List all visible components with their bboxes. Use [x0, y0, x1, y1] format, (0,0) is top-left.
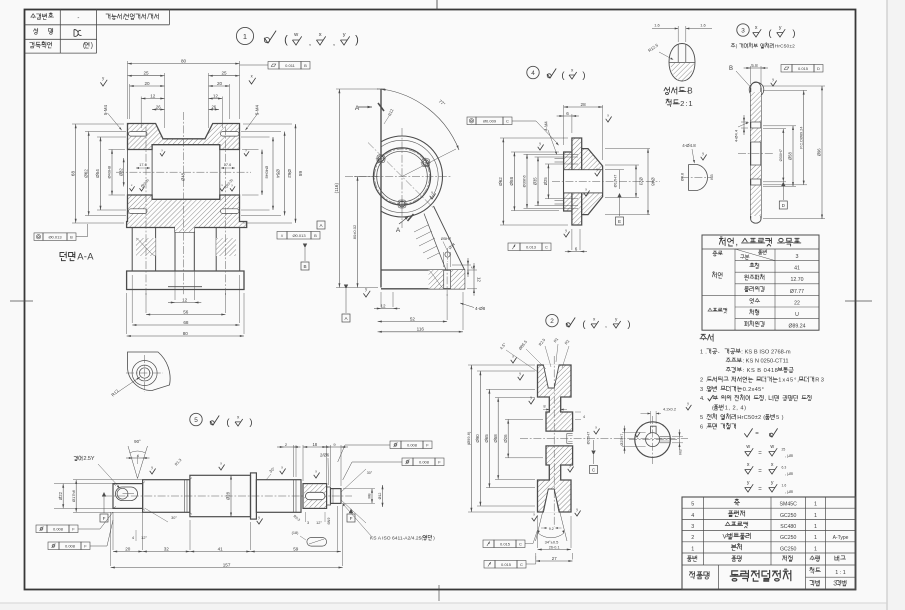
datum A box left — [317, 221, 325, 229]
diagonal centerline A-A cutting plane — [368, 143, 435, 210]
svg-text:x: x — [319, 32, 322, 38]
svg-text:V-: V- — [723, 534, 728, 541]
svg-text:Ø62: Ø62 — [83, 169, 88, 178]
svg-text:Ø22: Ø22 — [58, 491, 63, 500]
chain rows — [712, 272, 722, 278]
dim phi62 left — [85, 131, 126, 133]
svg-text:27: 27 — [552, 556, 557, 561]
datum F right — [347, 514, 355, 522]
spotface dim lines above base — [443, 252, 445, 267]
svg-text:17.6: 17.6 — [224, 163, 231, 167]
svg-text:5: 5 — [194, 417, 198, 424]
roughness check under base — [363, 291, 370, 297]
svg-text:Ø65: Ø65 — [484, 434, 489, 443]
svg-text:=: = — [758, 487, 762, 493]
svg-text:6N9: 6N9 — [327, 518, 331, 525]
notes header 주서 — [700, 334, 713, 341]
svg-text:F: F — [103, 516, 106, 521]
hatch bands sprocket — [751, 92, 761, 122]
svg-text:y: y — [151, 465, 153, 469]
top center mark — [436, 0, 438, 10]
housing top wall (hatched) — [128, 124, 240, 150]
dim 9.2 groove — [541, 527, 547, 529]
left end dims — [54, 483, 113, 485]
svg-text:Ø39h6: Ø39h6 — [522, 175, 527, 188]
svg-text:Ø0.013: Ø0.013 — [48, 234, 62, 239]
svg-text:B: B — [304, 63, 307, 68]
roughness check at rib top — [430, 194, 436, 200]
KS center hole note — [370, 535, 435, 542]
svg-text:Ø58: Ø58 — [788, 151, 793, 160]
center cross bracket — [345, 176, 452, 178]
dim phi40H8 right — [242, 149, 259, 151]
svg-text:0.015: 0.015 — [500, 541, 511, 546]
svg-text:1: 1 — [814, 502, 817, 508]
bolt hole in base section — [443, 270, 445, 289]
svg-text:(18): (18) — [292, 531, 299, 535]
svg-text:,: , — [309, 38, 311, 47]
svg-text:Ø7.77: Ø7.77 — [790, 289, 804, 295]
datum F boxes — [100, 514, 108, 522]
shaft threaded end M8 — [331, 489, 342, 504]
flatness frame 0.011 B — [268, 62, 279, 70]
flatness frame 0.015 D — [781, 65, 792, 73]
svg-text:32: 32 — [164, 546, 170, 551]
svg-text:26: 26 — [156, 104, 161, 109]
svg-text:68: 68 — [70, 171, 75, 177]
svg-text:1.6: 1.6 — [782, 484, 787, 488]
svg-text:5-M4: 5-M4 — [103, 104, 108, 115]
svg-text:x: x — [771, 462, 774, 468]
svg-text:68: 68 — [183, 320, 189, 325]
svg-text:3: 3 — [796, 254, 799, 260]
svg-text:A-A: A-A — [77, 251, 94, 262]
svg-text:5-M4: 5-M4 — [255, 104, 260, 115]
svg-text:1: 1 — [814, 535, 817, 541]
bottom V-groove white — [543, 489, 559, 513]
dim 25 right — [208, 73, 210, 128]
svg-text:30°: 30° — [367, 471, 373, 475]
svg-text:25: 25 — [782, 448, 786, 452]
svg-text:x: x — [315, 469, 317, 473]
svg-text:SC480: SC480 — [780, 524, 796, 530]
dim 4 hub lip — [575, 411, 581, 413]
chamfer 30 at B right bottom — [145, 508, 169, 522]
svg-text:Ø0.013: Ø0.013 — [292, 233, 306, 238]
relief groove right — [327, 487, 331, 505]
roughness note 2 — [566, 318, 575, 328]
roughness note 5 — [210, 416, 219, 426]
svg-text:17.6: 17.6 — [139, 163, 146, 167]
local section hatch on E — [304, 485, 326, 508]
section label 단면 A-A — [60, 251, 94, 262]
svg-text:y: y — [771, 480, 774, 486]
svg-text:w: w — [770, 444, 774, 450]
top tick — [377, 88, 385, 90]
base corner detail outline — [127, 352, 170, 391]
pulley top half solid (hatched) — [538, 365, 573, 431]
svg-text:): ) — [582, 70, 585, 81]
note line 4 — [700, 396, 705, 402]
svg-text:, µm: , µm — [785, 471, 794, 476]
svg-text:y: y — [565, 228, 567, 232]
M3 set screw section right — [567, 433, 573, 435]
roughness checks pulley — [518, 375, 524, 381]
svg-text:80: 80 — [181, 58, 187, 63]
dim (116) left — [336, 88, 378, 90]
dim 26 small right — [209, 109, 220, 111]
svg-text:1 : 1: 1 : 1 — [835, 570, 846, 576]
svg-text:w: w — [746, 444, 750, 450]
view4 left dim chain — [500, 137, 568, 139]
pulley bottom dims — [537, 516, 539, 548]
svg-text:KS A ISO 6411-A2/4.25(: KS A ISO 6411-A2/4.25( — [370, 536, 423, 542]
svg-text:Ø5H7: Ø5H7 — [441, 236, 452, 241]
left border center mark — [10, 300, 33, 302]
svg-text:Ø23: Ø23 — [638, 177, 643, 186]
svg-text:9.2: 9.2 — [549, 527, 554, 531]
pulley bottom half solid (hatched) — [538, 446, 573, 512]
title block — [682, 497, 856, 590]
svg-text:18: 18 — [312, 442, 317, 447]
svg-text:4: 4 — [583, 415, 585, 419]
dim 68 bottom — [131, 275, 133, 323]
dim 56 — [145, 293, 147, 313]
bracket bottom dim 52 — [446, 294, 448, 320]
left bearing bore opening — [128, 149, 153, 151]
svg-text:Ø62: Ø62 — [287, 169, 292, 178]
svg-text:4-Ø8: 4-Ø8 — [475, 306, 486, 311]
svg-text:(: ( — [284, 34, 288, 46]
phi5H7 hole on rib — [445, 252, 450, 257]
svg-text:=: = — [755, 431, 759, 437]
svg-text:HrC50±2 (: HrC50±2 ( — [737, 415, 765, 421]
svg-text:x: x — [512, 354, 514, 358]
svg-text:HrC50±2: HrC50±2 — [775, 44, 795, 50]
svg-text:1x45°,: 1x45°, — [778, 378, 799, 384]
shaft axis centerline — [104, 495, 352, 497]
dim 8 web — [543, 409, 549, 411]
header row diag — [735, 249, 775, 261]
bore dia label rotated — [622, 432, 646, 434]
note line 2 — [700, 377, 824, 384]
dim 25 left — [164, 73, 166, 128]
check inside end view — [635, 432, 640, 437]
balloon 5 — [190, 413, 202, 425]
runout frames pulley bottom — [483, 540, 494, 548]
svg-text:,: , — [605, 322, 607, 329]
datum A triangle under base — [344, 285, 348, 290]
svg-text:Ø89.24: Ø89.24 — [788, 324, 805, 330]
svg-text:B: B — [314, 233, 317, 238]
svg-text:y: y — [431, 190, 433, 194]
svg-text:x: x — [533, 512, 535, 516]
svg-text:/: / — [123, 14, 125, 21]
svg-text:E: E — [618, 219, 621, 224]
hub end view outer circle — [635, 422, 671, 458]
svg-text:3: 3 — [307, 521, 309, 525]
balloon 2 — [546, 314, 558, 326]
svg-text:y: y — [772, 77, 774, 81]
svg-text:B: B — [303, 264, 306, 269]
svg-text:6: 6 — [575, 246, 578, 251]
R12 label with leader — [118, 377, 140, 392]
svg-text:12: 12 — [476, 277, 481, 283]
balloon 1 — [236, 27, 253, 44]
top right dims 2 18 9 — [293, 445, 295, 477]
label 기능사/산업기사/기사 — [106, 14, 159, 21]
svg-text:2/Ø6: 2/Ø6 — [320, 453, 330, 458]
svg-text:12: 12 — [380, 303, 386, 308]
right border center mark — [845, 300, 872, 302]
housing legs — [131, 228, 133, 272]
svg-text:y: y — [747, 480, 750, 486]
shaft segment E (phi17 with keyseat) — [303, 484, 327, 509]
groove angle extension lines below — [536, 489, 549, 541]
svg-text:0.2x45°: 0.2x45° — [743, 387, 764, 393]
svg-text:B: B — [729, 66, 733, 72]
bolt circle dashdot — [375, 149, 430, 204]
svg-text:34°±0.5: 34°±0.5 — [545, 540, 560, 545]
svg-text:2: 2 — [691, 535, 694, 541]
svg-text:Ø35: Ø35 — [533, 177, 538, 186]
bracket front face line — [380, 89, 382, 288]
bracket base — [381, 270, 465, 289]
svg-text:41: 41 — [794, 266, 800, 272]
bore lines — [546, 430, 573, 432]
svg-text:): ) — [627, 319, 630, 330]
svg-text:): ) — [792, 28, 795, 39]
svg-text:A: A — [396, 227, 401, 234]
svg-text:A: A — [355, 105, 360, 112]
section arrow A bottom — [399, 216, 409, 224]
svg-text:Ø25H7: Ø25H7 — [586, 431, 591, 444]
svg-text:4.: 4. — [700, 396, 705, 402]
chain sprocket table — [702, 235, 819, 330]
roughness check top — [771, 81, 777, 87]
svg-text:Ø0.009: Ø0.009 — [483, 118, 497, 123]
keyway slot E white — [306, 492, 326, 499]
bolt holes with spot-face bosses — [377, 155, 385, 163]
exam info table — [25, 24, 170, 26]
pulley dims left chain — [468, 364, 535, 366]
roughness note 4 — [547, 69, 556, 79]
svg-text:w: w — [293, 32, 299, 38]
shoulder ring (phi32) — [251, 473, 257, 519]
dim 12 right — [221, 97, 223, 129]
svg-text:-B: -B — [686, 87, 692, 96]
svg-text:(Ø99.6): (Ø99.6) — [466, 431, 471, 445]
svg-text:Ø96: Ø96 — [817, 148, 822, 157]
svg-text:y: y — [576, 507, 578, 511]
roughness note 3 — [753, 29, 762, 37]
bore band — [751, 141, 761, 143]
keyway width dim 4.2 — [650, 411, 652, 424]
radial line to sector arc tip — [402, 149, 456, 177]
svg-text:Ø90: Ø90 — [475, 434, 480, 443]
main axis centerline — [116, 171, 251, 173]
svg-text:6: 6 — [566, 111, 569, 116]
keyway depth label left — [74, 456, 95, 462]
svg-text:-: - — [77, 16, 79, 22]
svg-text:(116): (116) — [334, 183, 339, 194]
vertical centerline of housing — [183, 112, 185, 295]
svg-text:y: y — [702, 151, 704, 155]
flange plate (hatched) — [572, 138, 582, 225]
bracket bottom dim 12 — [380, 292, 382, 307]
roughness checks shaft — [150, 469, 156, 475]
tooth profile detail — [689, 165, 708, 191]
svg-text:25: 25 — [221, 71, 227, 76]
svg-text:C: C — [545, 244, 548, 249]
shaft segment C (phi28) — [190, 475, 251, 516]
svg-text:-: - — [718, 349, 720, 355]
shaft segment B (phi22) — [143, 480, 190, 513]
center cross — [126, 372, 163, 374]
leader from frames to pulley — [525, 530, 538, 544]
svg-text:56: 56 — [183, 309, 189, 314]
svg-text:3: 3 — [741, 27, 745, 34]
svg-text:M3: M3 — [710, 174, 714, 179]
note gear heat treatment — [731, 43, 795, 50]
hub end view bore circle — [646, 433, 660, 447]
base plate — [127, 271, 244, 290]
roundness frame view4 top-left — [467, 117, 476, 125]
svg-text:x: x — [607, 113, 609, 117]
svg-text:1: 1 — [243, 32, 247, 41]
dim 90 degree relief groove — [128, 446, 148, 479]
cone and hub (hatched) — [582, 149, 603, 215]
svg-text:Ø58: Ø58 — [493, 434, 498, 443]
svg-text:, µm: , µm — [785, 489, 794, 494]
note line 1 — [700, 349, 791, 356]
detail B caption — [664, 87, 693, 96]
svg-text:157: 157 — [223, 562, 231, 567]
svg-text:: KS B ISO 2768-m: : KS B ISO 2768-m — [741, 349, 791, 355]
o-ring groove slots top flanges — [129, 132, 148, 137]
svg-text:F: F — [350, 516, 353, 521]
dim 6 bottom view4 — [571, 229, 573, 250]
note line 5 — [700, 414, 784, 422]
base right small dims — [467, 269, 477, 271]
svg-text:y: y — [539, 141, 541, 145]
chamfer diagonals left end — [113, 484, 116, 486]
svg-text:x: x — [595, 425, 597, 429]
dim 68 right — [243, 123, 292, 125]
svg-text:C: C — [520, 562, 523, 567]
o-ring groove slots bottom flanges — [129, 209, 148, 214]
bolt hole circles — [132, 361, 157, 386]
4-M4 tapped holes hidden lines — [555, 158, 564, 160]
svg-text:59: 59 — [293, 546, 299, 551]
right bearing bore opening — [220, 149, 240, 151]
bore white band — [564, 170, 603, 193]
svg-text:y: y — [258, 515, 260, 519]
svg-text:4-Ø4.8: 4-Ø4.8 — [682, 143, 696, 148]
bottom center mark — [438, 585, 440, 601]
dim 68 left — [72, 123, 124, 125]
svg-text:Ø26: Ø26 — [503, 434, 508, 443]
dim phi40H8 left — [109, 149, 126, 151]
snap ring groove D — [293, 480, 295, 513]
svg-text:): ) — [91, 42, 93, 50]
svg-text:4-Ø4.4: 4-Ø4.4 — [734, 129, 739, 142]
bolt hole centerlines through housing — [145, 127, 147, 295]
label 수검번호 — [31, 13, 54, 19]
svg-text:22: 22 — [794, 300, 800, 306]
svg-text:M3: M3 — [679, 449, 683, 454]
svg-text:C: C — [506, 118, 509, 123]
svg-text:2:1: 2:1 — [680, 99, 693, 108]
keyway slot end view — [651, 426, 657, 433]
bore chamber inner centerline marks — [151, 145, 153, 200]
M3 dim right — [672, 435, 683, 437]
svg-text:Ø40H8: Ø40H8 — [107, 165, 112, 178]
bore circles — [373, 148, 430, 205]
keyway slot A — [116, 487, 138, 501]
svg-text:Ø12: Ø12 — [378, 493, 382, 500]
svg-text:M8: M8 — [368, 494, 372, 499]
svg-text:4: 4 — [531, 70, 535, 77]
svg-text:116: 116 — [417, 327, 425, 332]
svg-text:12: 12 — [150, 93, 156, 98]
svg-text:68: 68 — [298, 171, 303, 177]
svg-text:SM45C: SM45C — [780, 502, 798, 508]
base bottom recess — [168, 286, 202, 288]
svg-text:Ø54: Ø54 — [276, 169, 281, 178]
svg-text:Ø54: Ø54 — [95, 169, 100, 178]
svg-text:0.011: 0.011 — [285, 63, 295, 68]
svg-text:0.015: 0.015 — [501, 562, 512, 567]
svg-text:=: = — [758, 451, 762, 457]
svg-text:1, 2, 4): 1, 2, 4) — [725, 406, 746, 412]
svg-text:C: C — [519, 541, 522, 546]
svg-text:80: 80 — [183, 331, 189, 336]
svg-text:Ø48: Ø48 — [650, 177, 655, 186]
svg-text:12: 12 — [213, 93, 219, 98]
svg-text:25: 25 — [143, 71, 149, 76]
note line 3 — [700, 386, 764, 393]
housing bottom wall (hatched) — [127, 195, 247, 232]
svg-text:0.008: 0.008 — [407, 442, 418, 447]
svg-text:: KS B 0418: : KS B 0418 — [743, 368, 778, 374]
svg-text:Ø17H7: Ø17H7 — [613, 174, 618, 187]
shaft segment A (phi17) — [113, 484, 143, 509]
thread dims right — [371, 489, 373, 504]
dim 12 column — [174, 236, 176, 300]
rib outline — [434, 206, 465, 270]
value DC scribble — [74, 30, 82, 37]
svg-text:26: 26 — [211, 104, 216, 109]
tooth slot lines — [677, 45, 679, 63]
svg-text:Ø17h6: Ø17h6 — [71, 489, 76, 502]
svg-text:30°: 30° — [171, 516, 177, 520]
svg-text:): ) — [355, 34, 359, 46]
svg-text:20: 20 — [144, 81, 150, 86]
svg-text:1: 1 — [814, 524, 817, 530]
svg-text:, µm: , µm — [785, 453, 794, 458]
svg-text:20: 20 — [125, 546, 131, 551]
bracket bottom dim 116 — [462, 292, 464, 330]
svg-text:12°: 12° — [316, 521, 322, 525]
svg-text:Ø32: Ø32 — [118, 168, 123, 177]
svg-text:y: y — [569, 463, 571, 467]
dim lines left small — [741, 121, 748, 123]
svg-text:GC250: GC250 — [780, 546, 797, 552]
svg-text:=: = — [758, 469, 762, 475]
pulley vertical centerline — [553, 356, 555, 527]
label (인) — [83, 42, 93, 50]
